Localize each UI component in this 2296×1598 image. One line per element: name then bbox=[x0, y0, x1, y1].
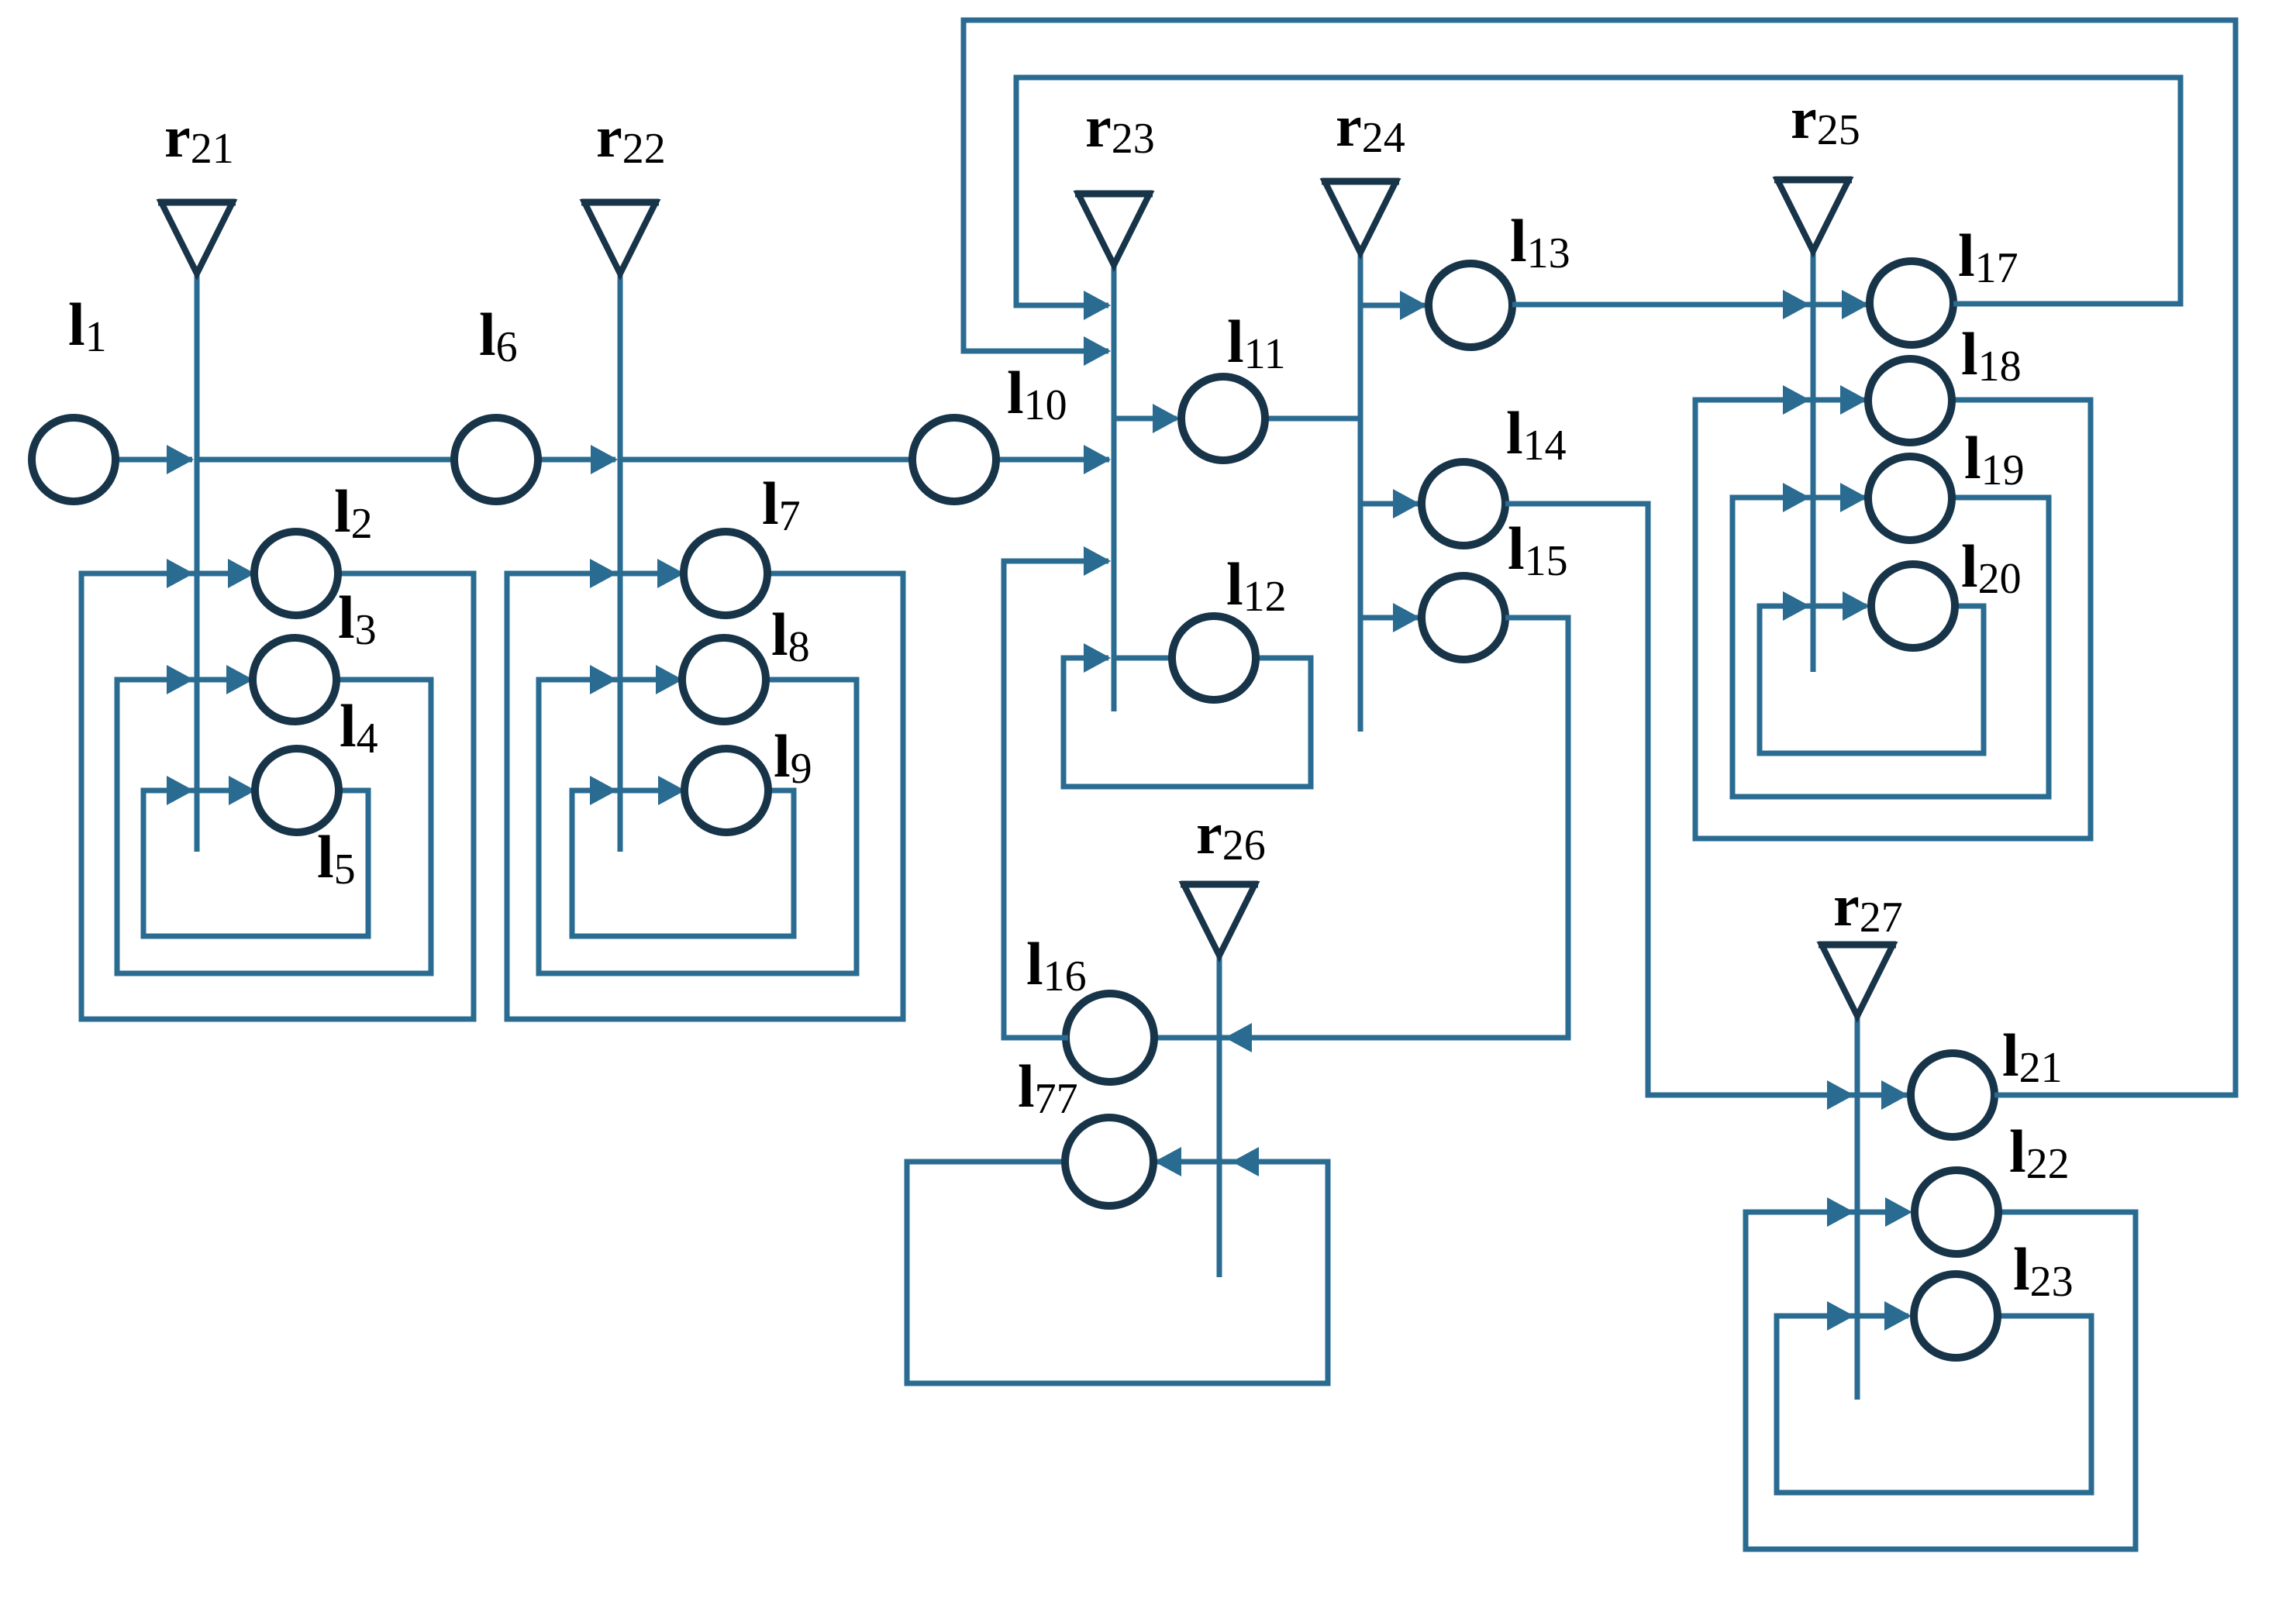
wire r23 line to l12 bbox=[1114, 656, 1172, 661]
wire r24 feed vertical feed line bbox=[1358, 253, 1363, 732]
wire l18 feedback loop bbox=[1695, 400, 2091, 839]
wire l17 feedback to r23 bbox=[1016, 77, 2181, 305]
receiver r27 antenna bbox=[1819, 945, 1896, 1016]
link l4 node bbox=[255, 749, 339, 832]
wire r27 feed vertical feed line bbox=[1855, 1016, 1860, 1400]
arrow into l8 bbox=[656, 665, 683, 694]
wire l16 to r23 bbox=[1004, 561, 1108, 1038]
arrow l17 loop into r23 line bbox=[1084, 291, 1111, 320]
arrow l22 loop into r27 line bbox=[1827, 1197, 1854, 1227]
link l23 node bbox=[1914, 1274, 1998, 1358]
link l9 node bbox=[684, 749, 768, 832]
wire r23 to l11 bbox=[1114, 416, 1177, 422]
wire r23 feed vertical feed line bbox=[1112, 265, 1117, 711]
wire l77 feedback loop bbox=[907, 1162, 1328, 1383]
arrow across r26 into l16 bbox=[1225, 1023, 1252, 1052]
wire l12 feedback loop bbox=[1064, 658, 1311, 787]
link l15 node bbox=[1422, 576, 1505, 660]
link l12 node bbox=[1172, 616, 1256, 700]
receiver r21 antenna bbox=[158, 202, 236, 274]
wire r22 to l10 bbox=[620, 457, 912, 463]
arrow into l4 bbox=[229, 776, 256, 805]
arrow l9 loop into r22 line bbox=[590, 776, 617, 805]
link l10 node bbox=[912, 418, 996, 501]
arrow into r22 line bbox=[591, 445, 618, 474]
wire l4 feedback loop bbox=[143, 790, 368, 936]
wire r24 to l13 bbox=[1360, 303, 1425, 308]
wire l1 to r21 bbox=[115, 457, 192, 463]
link l6 node bbox=[454, 418, 538, 501]
arrow into l21 bbox=[1881, 1080, 1908, 1110]
wire l13 to l17 bbox=[1512, 302, 1867, 308]
link l14 node bbox=[1422, 462, 1505, 546]
link l18 node bbox=[1868, 359, 1952, 443]
arrow l19 loop into r25 line bbox=[1783, 483, 1810, 512]
wire l2 feedback loop bbox=[81, 573, 474, 1019]
link l17 node bbox=[1870, 261, 1953, 345]
wire r21 feed vertical feed line bbox=[195, 274, 200, 852]
link l2 node bbox=[254, 532, 338, 615]
wire l14 down to l21 bbox=[1505, 504, 1907, 1095]
wire l11 to r24 bbox=[1265, 416, 1360, 422]
link l19 node bbox=[1868, 456, 1952, 540]
link l21 node bbox=[1911, 1053, 1994, 1137]
wire l15 down to l16 bbox=[1157, 618, 1568, 1038]
arrow into l19 bbox=[1840, 483, 1867, 512]
wire l23 feedback loop bbox=[1777, 1316, 2091, 1493]
receiver r25 antenna bbox=[1774, 180, 1852, 251]
arrow into l22 bbox=[1885, 1197, 1912, 1227]
receiver r26 antenna bbox=[1181, 884, 1258, 956]
arrow into l3 bbox=[226, 665, 253, 694]
arrow into l17 bbox=[1842, 290, 1869, 319]
arrow l18 loop into r25 line bbox=[1783, 385, 1810, 415]
receiver r24 antenna bbox=[1322, 181, 1399, 253]
wire r24 to l15 bbox=[1360, 615, 1419, 621]
arrow into l7 bbox=[657, 559, 684, 588]
link l11 node bbox=[1181, 377, 1265, 460]
arrow l2 loop into r21 line bbox=[167, 559, 194, 588]
wire r26 feed vertical feed line bbox=[1217, 956, 1222, 1277]
arrow into l23 bbox=[1884, 1301, 1912, 1331]
wire l6 to r22 bbox=[538, 457, 615, 463]
arrow into l2 bbox=[228, 559, 255, 588]
receiver r22 antenna bbox=[581, 202, 659, 274]
arrow l7 loop into r22 line bbox=[590, 559, 617, 588]
link l3 node bbox=[253, 638, 336, 722]
wire l21 feedback to r23 bbox=[964, 20, 2236, 1095]
wire l20 feedback loop bbox=[1760, 606, 1984, 753]
link l77 node bbox=[1065, 1118, 1153, 1206]
link l13 node bbox=[1429, 263, 1512, 347]
arrow into l15 bbox=[1393, 603, 1420, 632]
arrow l16 into r23 line bbox=[1084, 546, 1111, 576]
link l20 node bbox=[1871, 564, 1955, 648]
wire r25 feed vertical feed line bbox=[1811, 251, 1816, 672]
arrow l4 loop into r21 line bbox=[167, 776, 194, 805]
arrow l8 loop into r22 line bbox=[590, 665, 617, 694]
arrow into l18 bbox=[1840, 385, 1867, 415]
wire r24 to l14 bbox=[1360, 501, 1419, 507]
arrow into l9 bbox=[658, 776, 685, 805]
arrow into r23 line at l12 row bbox=[1084, 643, 1111, 673]
arrow into l11 bbox=[1153, 404, 1180, 433]
wire l19 feedback loop bbox=[1732, 498, 2049, 797]
link l7 node bbox=[684, 532, 767, 615]
receiver r23 antenna bbox=[1075, 194, 1153, 265]
arrow into l14 bbox=[1393, 489, 1420, 518]
wire l10 to r23 bbox=[996, 457, 1109, 463]
link l1 node bbox=[32, 418, 115, 501]
arrow into l13 bbox=[1400, 291, 1427, 320]
wire l22 feedback loop bbox=[1746, 1212, 2136, 1549]
wire r21 to l6 bbox=[197, 457, 454, 463]
arrow l3 loop into r21 line bbox=[167, 665, 194, 694]
arrow l23 loop into r27 line bbox=[1827, 1301, 1854, 1331]
link l8 node bbox=[682, 638, 766, 722]
arrow l20 loop into r25 line bbox=[1783, 591, 1810, 621]
arrow into r23 line bbox=[1084, 445, 1111, 474]
arrow across r26 into l77 bbox=[1232, 1147, 1259, 1176]
arrow into r27 line at l21 row bbox=[1827, 1080, 1854, 1110]
wire l3 feedback loop bbox=[117, 680, 431, 973]
wire l7 feedback loop bbox=[507, 573, 903, 1019]
wire l9 feedback loop bbox=[572, 790, 794, 936]
link l22 node bbox=[1915, 1170, 1998, 1254]
arrow into l20 bbox=[1843, 591, 1870, 621]
arrow l21 loop into r23 line bbox=[1084, 336, 1111, 366]
arrow into l77 bbox=[1154, 1147, 1181, 1176]
arrow into r25 line at l17 row bbox=[1783, 290, 1810, 319]
link l16 node bbox=[1066, 994, 1154, 1082]
arrow into r21 line bbox=[167, 445, 194, 474]
wire l8 feedback loop bbox=[539, 680, 857, 973]
wire r22 feed vertical feed line bbox=[618, 274, 623, 852]
